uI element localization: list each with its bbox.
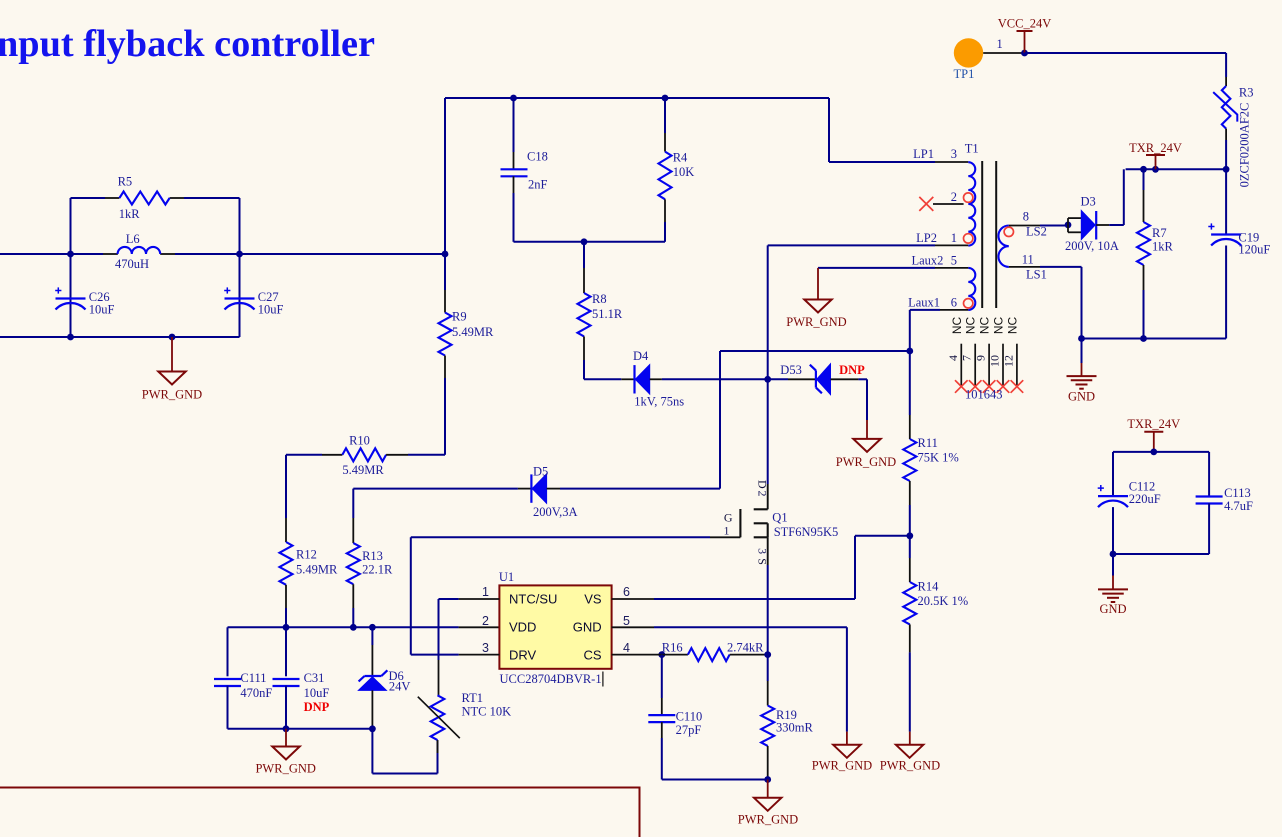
svg-text:R5: R5: [118, 175, 133, 189]
junction: [1078, 335, 1085, 342]
wire gnd stem: [1112, 554, 1114, 576]
junction: [1150, 449, 1157, 456]
wire D4 right pin: [650, 378, 662, 380]
junction: [283, 725, 290, 732]
svg-text:D4: D4: [633, 349, 649, 363]
thermistor RT1 NTC 10K: [431, 695, 445, 740]
svg-text:LS2: LS2: [1026, 225, 1047, 239]
svg-text:101643: 101643: [965, 388, 1003, 402]
wire R19 gnd stem: [767, 780, 769, 798]
svg-text:4.7uF: 4.7uF: [1224, 499, 1253, 513]
junction: [67, 334, 74, 341]
junction: [1110, 551, 1117, 558]
wire D5 anode side: [353, 488, 518, 490]
wire LP2 to drain: [768, 244, 935, 246]
capacitor C111: [214, 678, 241, 680]
resistor R8: [578, 293, 591, 336]
pin 1 NTC/SU: [459, 598, 500, 600]
svg-text:8: 8: [1023, 210, 1029, 224]
svg-text:NC: NC: [964, 317, 978, 335]
svg-text:Laux2: Laux2: [911, 254, 943, 268]
wire C18 bottom lead: [513, 176, 515, 193]
svg-text:RT1: RT1: [462, 691, 483, 705]
transformer NC pins: [960, 344, 962, 387]
zener diode D53 DNP: [815, 370, 817, 387]
junction: [283, 624, 290, 631]
wire LS1 to gnd: [1040, 266, 1082, 268]
svg-text:0ZCF0200AF2C: 0ZCF0200AF2C: [1238, 103, 1252, 188]
junction: [906, 348, 913, 355]
svg-text:2: 2: [482, 614, 489, 628]
resistor R16: [654, 654, 688, 656]
svg-text:D53: D53: [780, 363, 802, 377]
svg-text:1: 1: [951, 231, 957, 245]
svg-text:330mR: 330mR: [776, 721, 813, 735]
text caret after part number: [602, 672, 604, 687]
svg-text:C110: C110: [676, 710, 703, 724]
diode D5 200V 3A: [530, 474, 532, 502]
svg-text:DNP: DNP: [304, 700, 330, 714]
pin 2 stub with no-connect: [933, 203, 964, 205]
wire CS junction: [658, 651, 665, 658]
svg-text:6: 6: [623, 585, 630, 599]
wire pin5 gnd stem: [846, 732, 848, 745]
svg-text:R3: R3: [1239, 86, 1254, 100]
svg-text:LP2: LP2: [916, 231, 937, 245]
wire source down: [767, 565, 769, 655]
wire RT1 bottom pin: [437, 740, 439, 753]
svg-text:R14: R14: [918, 580, 940, 594]
svg-text:VS: VS: [584, 592, 602, 607]
polarity dot pin1: [964, 234, 973, 243]
wire R14 gnd stem: [909, 732, 911, 745]
svg-text:R4: R4: [673, 151, 688, 165]
svg-text:C18: C18: [527, 150, 548, 164]
svg-text:5: 5: [951, 254, 957, 268]
svg-text:nput flyback controller: nput flyback controller: [0, 23, 375, 65]
svg-text:C111: C111: [240, 671, 266, 685]
wire C111 bottom lead: [227, 686, 229, 729]
svg-text:1kV, 75ns: 1kV, 75ns: [634, 395, 684, 409]
wire NTC pin to RT1: [439, 598, 459, 600]
wire R10 left lead: [286, 454, 322, 456]
svg-text:PWR_GND: PWR_GND: [255, 762, 315, 776]
svg-text:22.1R: 22.1R: [362, 563, 393, 577]
wire Laux1 down: [910, 309, 940, 311]
svg-text:2: 2: [756, 491, 770, 497]
svg-text:51.1R: 51.1R: [592, 307, 623, 321]
wire R7 top lead: [1143, 169, 1145, 190]
capacitor C27: [225, 297, 255, 299]
svg-text:10: 10: [988, 355, 1002, 367]
junction: [906, 532, 913, 539]
svg-text:5.49MR: 5.49MR: [452, 325, 494, 339]
svg-text:VDD: VDD: [509, 620, 536, 635]
svg-text:Q1: Q1: [772, 511, 787, 525]
resistor R12: [280, 542, 293, 585]
junction: [581, 238, 588, 245]
sheet border: [0, 788, 640, 837]
power ground PWR_GND for Laux2: [804, 300, 831, 313]
svg-text:1: 1: [482, 585, 489, 599]
zener diode D6 24V: [365, 675, 382, 677]
wire clamp return: [720, 350, 910, 352]
wire gate pin: [710, 536, 740, 538]
wire snubber bottom tie: [514, 241, 666, 243]
wire R14 top lead: [909, 536, 911, 558]
wire R10 right lead: [386, 454, 408, 456]
svg-text:2: 2: [951, 190, 957, 204]
svg-text:220uF: 220uF: [1129, 492, 1161, 506]
wire C31 top lead: [285, 627, 287, 676]
wire D4 left pin: [621, 378, 634, 380]
transformer T1 core: [981, 161, 983, 308]
power ground PWR_GND for D53: [853, 439, 880, 452]
pin 6 VS: [612, 598, 654, 600]
wire C19 top lead: [1225, 169, 1227, 234]
svg-text:R10: R10: [349, 434, 370, 448]
svg-text:9: 9: [974, 355, 988, 361]
wire vertical x445 lower: [444, 356, 446, 379]
svg-text:20.5K 1%: 20.5K 1%: [918, 594, 969, 608]
wire TXR rail: [1126, 168, 1227, 170]
wire C113 bottom lead: [1208, 503, 1210, 554]
wire R4 top lead: [664, 98, 666, 133]
junction: [764, 651, 771, 658]
power port VCC_24V: [1017, 30, 1033, 32]
svg-text:10uF: 10uF: [89, 303, 115, 317]
svg-text:1kR: 1kR: [1152, 240, 1174, 254]
wire C110 top lead: [661, 655, 663, 698]
wire top rail to LP1: [828, 98, 830, 162]
wire cap bank top rail: [1113, 451, 1209, 453]
wire GND pin5 to ground: [654, 626, 847, 628]
svg-text:75K 1%: 75K 1%: [918, 451, 959, 465]
svg-text:CS: CS: [584, 648, 602, 663]
svg-text:C113: C113: [1224, 486, 1251, 500]
wire VDD pin 2: [459, 626, 500, 628]
diode D3 200V 10A: [1081, 211, 1095, 240]
resistor R9: [439, 313, 452, 356]
wire D6 top lead: [371, 627, 373, 645]
resistor R7: [1137, 222, 1150, 265]
svg-text:TXR_24V: TXR_24V: [1129, 141, 1182, 155]
svg-text:UCC28704DBVR-1: UCC28704DBVR-1: [500, 672, 602, 686]
wire vertical x445 upper: [444, 98, 446, 290]
wire R12 bottom lead: [285, 585, 287, 608]
wire Laux2 to ground: [818, 267, 935, 269]
power ground PWR_GND under R14: [896, 745, 923, 758]
svg-text:11: 11: [1022, 253, 1034, 267]
wire DRV to gate: [411, 654, 459, 656]
resistor R5: [119, 192, 169, 205]
wire TP1 pin: [983, 52, 1024, 54]
wire R13 bottom lead: [352, 584, 354, 608]
junction: [662, 95, 669, 102]
wire R14 bottom lead: [909, 624, 911, 652]
polarity dot pin8: [1004, 227, 1013, 236]
wire VDD rail: [228, 626, 459, 628]
fuse R3 0ZCF0200AF2C: [1225, 53, 1227, 77]
wire drain pin: [767, 484, 769, 509]
svg-text:6: 6: [951, 296, 957, 310]
wire D6 bottom lead: [371, 690, 373, 727]
wire PWR_GND stem: [285, 729, 287, 747]
svg-text:NTC/SU: NTC/SU: [509, 592, 557, 607]
wire bottom rail: [0, 336, 240, 338]
svg-text:DNP: DNP: [839, 363, 865, 377]
wire source pin: [767, 537, 769, 565]
wire R3 bottom lead: [1225, 129, 1227, 140]
wire gnd stem: [1081, 339, 1083, 364]
wire R7 bottom lead: [1143, 265, 1145, 290]
wire D4 to D53: [662, 378, 788, 380]
power ground PWR_GND for U1 GND: [833, 745, 860, 758]
svg-text:PWR_GND: PWR_GND: [836, 455, 896, 469]
resistor R14: [903, 582, 916, 624]
svg-text:PWR_GND: PWR_GND: [738, 812, 798, 826]
wire R4 bottom lead: [664, 199, 666, 222]
svg-text:PWR_GND: PWR_GND: [786, 315, 846, 329]
junction: [764, 776, 771, 783]
wire D53 right to ground: [858, 378, 867, 380]
svg-text:2.74kR: 2.74kR: [727, 641, 764, 655]
wire R11 bottom lead: [909, 481, 911, 505]
power port TXR_24V mid: [1144, 431, 1163, 433]
svg-text:R16: R16: [662, 641, 683, 655]
wire VS to divider tap: [654, 598, 855, 600]
capacitor C26: [56, 297, 86, 299]
power ground PWR_GND under C31: [272, 747, 299, 760]
pin 8 stub: [1009, 225, 1040, 227]
wire left vertical: [70, 198, 72, 337]
wire C112 top lead: [1112, 452, 1114, 496]
svg-text:U1: U1: [499, 570, 514, 584]
svg-text:R7: R7: [1152, 226, 1167, 240]
svg-text:R11: R11: [918, 436, 938, 450]
resistor R19: [761, 706, 774, 746]
svg-text:C31: C31: [304, 671, 325, 685]
junction: [67, 251, 74, 258]
svg-text:GND: GND: [1099, 602, 1126, 616]
svg-text:TP1: TP1: [954, 67, 975, 81]
wire main input rail: [0, 253, 103, 255]
svg-text:12: 12: [1001, 355, 1015, 367]
pin 5 GND: [612, 626, 654, 628]
power ground PWR_GND under R19: [754, 798, 781, 811]
wire D5 cathode to Laux net: [560, 488, 720, 490]
svg-text:PWR_GND: PWR_GND: [142, 388, 202, 402]
power port TXR_24V top: [1146, 154, 1165, 156]
pin LP1 stub: [935, 161, 968, 163]
svg-text:D3: D3: [1081, 195, 1096, 209]
diode D4 1kV 75ns: [633, 365, 635, 393]
ground GND output: [1067, 375, 1097, 377]
wire C111 top lead: [227, 627, 229, 676]
svg-text:D5: D5: [533, 465, 548, 479]
svg-text:5.49MR: 5.49MR: [296, 563, 338, 577]
wire right vertical: [239, 198, 241, 337]
pin 11 stub: [1009, 266, 1040, 268]
op-amp U1 UCC28704DBVR-1 body: [499, 585, 611, 668]
svg-text:5: 5: [623, 614, 630, 628]
svg-text:R12: R12: [296, 548, 317, 562]
svg-text:Laux1: Laux1: [908, 296, 940, 310]
wire output bottom rail: [1082, 338, 1227, 340]
resistor R10: [342, 448, 386, 461]
wire LS2 to D3: [1040, 225, 1068, 227]
transformer T1 secondary winding: [998, 226, 1008, 267]
pin LP2 stub: [935, 244, 968, 246]
svg-text:4: 4: [623, 641, 630, 655]
svg-text:D: D: [756, 480, 770, 489]
resistor R13: [347, 543, 360, 584]
svg-text:LP1: LP1: [913, 147, 934, 161]
svg-text:GND: GND: [1068, 390, 1095, 404]
transistor Q1 STF6N95K5: [739, 509, 741, 537]
wire VCC to R3: [1025, 52, 1227, 54]
svg-text:470uH: 470uH: [115, 257, 149, 271]
wire cap bank bottom rail: [1113, 553, 1209, 555]
svg-text:L6: L6: [126, 232, 140, 246]
resistor R4: [659, 152, 672, 200]
wire R5 top right: [170, 197, 184, 199]
svg-text:470nF: 470nF: [240, 686, 272, 700]
svg-text:3: 3: [951, 147, 957, 161]
wire R8 to D4: [583, 336, 585, 360]
svg-text:120uF: 120uF: [1238, 243, 1270, 257]
svg-text:NTC 10K: NTC 10K: [462, 705, 512, 719]
power ground PWR_GND: [158, 372, 185, 385]
wire C19 bottom lead: [1225, 246, 1227, 339]
ground GND cap bank: [1098, 588, 1128, 590]
svg-text:200V,3A: 200V,3A: [533, 505, 578, 519]
wire D5 right pin: [547, 488, 560, 490]
wire R19 bottom lead: [767, 746, 769, 780]
svg-text:1: 1: [997, 37, 1003, 51]
svg-text:7: 7: [960, 355, 974, 361]
svg-text:2nF: 2nF: [528, 178, 548, 192]
capacitor C113: [1196, 495, 1223, 497]
svg-text:200V, 10A: 200V, 10A: [1065, 239, 1119, 253]
junction: [442, 251, 449, 258]
transformer T1 aux winding: [968, 268, 975, 310]
svg-text:1: 1: [724, 523, 730, 537]
junction node at Q1 drain net: [764, 376, 771, 383]
svg-text:4: 4: [946, 355, 960, 361]
wire R11 top lead: [909, 351, 911, 415]
wire D53 right pin: [831, 378, 859, 380]
pin Laux1 stub: [940, 309, 968, 311]
wire PWR_GND stem: [171, 337, 173, 372]
svg-text:R9: R9: [452, 310, 467, 324]
wire C113 top lead: [1208, 452, 1210, 497]
inductor L6: [118, 247, 161, 254]
wire C110 to R19 bottom: [662, 779, 768, 781]
svg-text:NC: NC: [978, 317, 992, 335]
wire R19 top lead: [767, 655, 769, 681]
svg-text:R13: R13: [362, 549, 383, 563]
svg-text:DRV: DRV: [509, 648, 537, 663]
wire R5 top left: [71, 197, 106, 199]
svg-text:5.49MR: 5.49MR: [342, 463, 384, 477]
wire C112 bottom lead: [1112, 507, 1114, 554]
wire R13 top lead: [352, 489, 354, 518]
svg-text:STF6N95K5: STF6N95K5: [774, 525, 839, 539]
pin 4 CS: [612, 654, 654, 656]
capacitor C110: [648, 714, 675, 716]
svg-text:R8: R8: [592, 292, 607, 306]
svg-text:G: G: [724, 511, 733, 525]
testpoint TP1: [954, 38, 983, 67]
svg-text:GND: GND: [573, 620, 602, 635]
transformer T1 primary winding: [968, 162, 975, 245]
svg-text:T1: T1: [965, 142, 979, 156]
junction: [1065, 222, 1072, 229]
diode D3 pins fork: [1067, 218, 1069, 232]
capacitor C112: [1098, 495, 1128, 497]
polarity dot pin2: [964, 193, 973, 202]
svg-text:LS1: LS1: [1026, 268, 1047, 282]
svg-text:1kR: 1kR: [119, 207, 141, 221]
wire D5 left pin: [518, 488, 532, 490]
wire RT1 top pin: [438, 660, 440, 695]
wire D3 cathode: [1096, 224, 1109, 226]
wire VDD bottom rail: [228, 728, 373, 730]
pin Laux2 stub: [935, 267, 968, 269]
capacitor C18: [501, 168, 528, 170]
svg-text:NC: NC: [950, 317, 964, 335]
svg-text:TXR_24V: TXR_24V: [1127, 417, 1180, 431]
svg-text:10uF: 10uF: [304, 686, 330, 700]
wire R12 top lead: [285, 455, 287, 518]
capacitor C31 DNP: [273, 678, 300, 680]
wire D6 return to RT1: [371, 729, 373, 774]
capacitor C19: [1211, 233, 1241, 235]
wire C110 bottom lead: [661, 722, 663, 738]
pin 3 DRV: [459, 654, 500, 656]
svg-text:VCC_24V: VCC_24V: [998, 17, 1051, 31]
junction: [1223, 166, 1230, 173]
svg-text:NC: NC: [992, 317, 1006, 335]
svg-text:NC: NC: [1005, 317, 1019, 335]
svg-text:3: 3: [482, 641, 489, 655]
resistor R11: [903, 439, 916, 481]
wire C18 top lead: [513, 98, 515, 152]
wire R8 top lead: [583, 242, 585, 268]
svg-text:27pF: 27pF: [676, 723, 702, 737]
wire top rail: [445, 97, 829, 99]
svg-text:PWR_GND: PWR_GND: [812, 759, 872, 773]
junction: [1021, 50, 1028, 57]
svg-text:10K: 10K: [673, 165, 695, 179]
svg-text:10uF: 10uF: [258, 303, 284, 317]
polarity dot pin6: [964, 299, 973, 308]
wire C31 bottom lead: [285, 686, 287, 729]
svg-text:24V: 24V: [389, 680, 411, 694]
svg-text:PWR_GND: PWR_GND: [880, 759, 940, 773]
junction: [510, 95, 517, 102]
